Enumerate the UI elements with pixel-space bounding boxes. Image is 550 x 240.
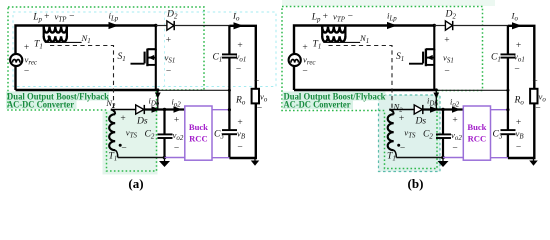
- capacitor C1 (b): [501, 53, 516, 55]
- svg-text:−: −: [121, 144, 126, 154]
- svg-text:−: −: [236, 65, 241, 75]
- source rail junction dot (b): [435, 88, 438, 91]
- svg-text:Buck: Buck: [467, 122, 486, 132]
- source rail junction dot (a): [156, 88, 159, 91]
- svg-text:Buck: Buck: [189, 122, 208, 132]
- wire D2 anode (a): [156, 25, 167, 27]
- svg-text:−: −: [257, 104, 262, 114]
- ground right (b): [529, 161, 538, 166]
- wire i_Db (a): [157, 90, 159, 110]
- figure a cyan dashed highlight box: [13, 12, 276, 87]
- svg-text:−: −: [302, 67, 307, 77]
- svg-text:+: +: [532, 77, 537, 87]
- transformer core line (a): [45, 41, 82, 43]
- svg-text:+: +: [399, 114, 404, 124]
- wire D2 cathode (a): [174, 25, 229, 27]
- svg-text:AC-DC Converter: AC-DC Converter: [7, 100, 74, 110]
- wire top rail (a): [16, 26, 156, 91]
- i_Db arrow (a): [155, 93, 161, 99]
- wire C2 branch (b): [442, 110, 444, 135]
- wire Ds to node (a): [144, 108, 164, 110]
- transformer N2 winding (a): [111, 110, 115, 115]
- svg-text:RCC: RCC: [468, 134, 487, 144]
- diode Ds (b): [414, 105, 422, 114]
- I_o current arrow (b): [512, 22, 522, 29]
- Buck RCC block (a): [185, 106, 212, 160]
- wire buck out bottom purple (a): [212, 157, 229, 159]
- N2 polarity dot (a): [119, 144, 122, 147]
- capacitor C3 (a): [222, 129, 237, 131]
- diode D2 (b): [445, 21, 452, 30]
- svg-text:+: +: [174, 116, 179, 126]
- wire secondary top (b): [389, 109, 414, 111]
- svg-text:−: −: [348, 12, 353, 22]
- transformer N1 winding (b): [322, 36, 345, 41]
- i_o2 arrow (b): [452, 106, 461, 113]
- svg-text:+: +: [516, 118, 521, 128]
- node junction dot (a): [163, 108, 166, 111]
- diode Ds (a): [136, 105, 144, 114]
- wire mid common thin (a): [158, 89, 230, 91]
- inductor Lp winding (b): [321, 26, 323, 38]
- wire buck out top purple (b): [491, 109, 508, 111]
- wire right rail lower (a): [229, 103, 255, 158]
- svg-text:AC-DC Converter: AC-DC Converter: [284, 100, 351, 110]
- wire C1 branch (b): [507, 26, 509, 55]
- wire node to buck (a): [165, 108, 185, 110]
- capacitor C2 (b): [436, 133, 451, 135]
- figure b teal dashed highlight box: [379, 95, 441, 172]
- svg-text:−: −: [69, 12, 74, 22]
- wire top rail (b): [294, 26, 434, 91]
- wire D2 cathode (b): [453, 25, 508, 27]
- figure a green dotted border: [8, 7, 204, 171]
- svg-text:+: +: [516, 41, 521, 51]
- AC source v_rec (a): [10, 54, 22, 66]
- figure b text highlight: [283, 92, 386, 101]
- svg-text:−: −: [400, 144, 405, 154]
- transformer N2 winding (b): [389, 110, 393, 115]
- svg-text:−: −: [166, 67, 171, 77]
- svg-text:+: +: [44, 12, 49, 22]
- svg-text:Ds: Ds: [136, 116, 148, 127]
- buck out junction dot (a): [228, 108, 231, 111]
- winding polarity dot (b): [326, 35, 329, 38]
- i_Ds arrow (b): [430, 106, 439, 113]
- svg-text:+: +: [323, 12, 328, 22]
- capacitor C3 (b): [501, 129, 516, 131]
- wire buck bottom left purple (a): [165, 157, 185, 159]
- wire buck out bottom purple (b): [491, 157, 508, 159]
- wire C2 branch (a): [163, 110, 165, 135]
- svg-text:−: −: [452, 144, 457, 154]
- common mid junction dot (b): [506, 89, 509, 92]
- coupling dashed line (a): [50, 46, 114, 113]
- capacitor C1 (a): [222, 53, 237, 55]
- i_Lp current arrow (a): [109, 22, 119, 29]
- svg-text:+: +: [444, 36, 449, 46]
- svg-text:+: +: [452, 116, 457, 126]
- bottom junction dot (a): [163, 156, 167, 160]
- ground right (a): [251, 161, 260, 166]
- transistor S1 (b): [426, 26, 434, 50]
- figure b teal fill secondary box: [379, 95, 441, 172]
- i_Lp current arrow (b): [387, 22, 397, 29]
- resistor Ro (a): [252, 89, 259, 104]
- wire output top (b): [508, 26, 534, 89]
- svg-text:+: +: [254, 77, 259, 87]
- N2 polarity dot (b): [397, 144, 400, 147]
- wire C1 branch (a): [228, 26, 230, 55]
- svg-text:−: −: [237, 143, 242, 153]
- svg-text:−: −: [444, 67, 449, 77]
- winding polarity dot (a): [48, 35, 51, 38]
- wire output top (a): [229, 26, 255, 89]
- svg-text:Ds: Ds: [415, 116, 427, 127]
- buck out junction dot (b): [506, 108, 509, 111]
- transistor S1 (a): [147, 26, 155, 50]
- svg-text:+: +: [120, 114, 125, 124]
- Buck RCC block (b): [463, 106, 490, 160]
- wire bottom rail (b): [294, 89, 436, 91]
- wire secondary bottom (a): [118, 157, 165, 159]
- figure b green dotted border: [282, 7, 483, 169]
- capacitor C2 (a): [158, 133, 173, 135]
- svg-text:−: −: [174, 144, 179, 154]
- figure b mint strip top: [282, 0, 495, 6]
- wire buck out top purple (a): [212, 109, 229, 111]
- AC source v_rec (b): [289, 54, 301, 66]
- wire node to buck (b): [443, 108, 463, 110]
- transformer core line (b): [323, 41, 360, 43]
- resistor Ro (b): [530, 89, 537, 104]
- svg-text:RCC: RCC: [189, 134, 208, 144]
- svg-text:−: −: [535, 104, 540, 114]
- svg-text:+: +: [237, 118, 242, 128]
- svg-text:−: −: [514, 65, 519, 75]
- wire secondary bottom (b): [396, 157, 443, 159]
- drain junction dot (a): [154, 24, 157, 27]
- svg-text:+: +: [237, 41, 242, 51]
- node junction dot (b): [441, 108, 444, 111]
- wire Ds to node (b): [423, 108, 443, 110]
- i_Db arrow (b): [433, 93, 439, 99]
- wire secondary top (a): [111, 109, 136, 111]
- wire D2 anode (b): [434, 25, 445, 27]
- svg-text:(b): (b): [408, 176, 424, 191]
- wire bottom rail (a): [16, 89, 158, 91]
- inductor Lp winding (a): [43, 26, 45, 38]
- wire buck bottom left purple (b): [443, 157, 463, 159]
- wire right rail lower (b): [508, 103, 534, 158]
- figure a mint fill secondary box: [103, 111, 158, 175]
- common mid junction dot (a): [228, 89, 231, 92]
- drain junction dot (b): [433, 24, 436, 27]
- svg-text:+: +: [302, 43, 307, 53]
- svg-text:+: +: [24, 43, 29, 53]
- ground left (b): [438, 161, 449, 167]
- svg-text:−: −: [516, 143, 521, 153]
- svg-text:+: +: [166, 36, 171, 46]
- transformer N1 winding (a): [44, 36, 67, 41]
- diode D2 (a): [167, 21, 174, 30]
- I_o current arrow (a): [234, 22, 244, 29]
- i_Ds arrow (a): [152, 106, 161, 113]
- svg-text:(a): (a): [128, 176, 143, 191]
- wire mid common thin (b): [436, 89, 508, 91]
- figure a text highlight: [6, 92, 109, 101]
- svg-text:−: −: [24, 67, 29, 77]
- wire i_Db (b): [435, 90, 437, 110]
- coupling dashed line (b): [329, 46, 393, 113]
- ground left (a): [159, 161, 170, 167]
- bottom junction dot (b): [441, 156, 445, 160]
- i_o2 arrow (a): [174, 106, 183, 113]
